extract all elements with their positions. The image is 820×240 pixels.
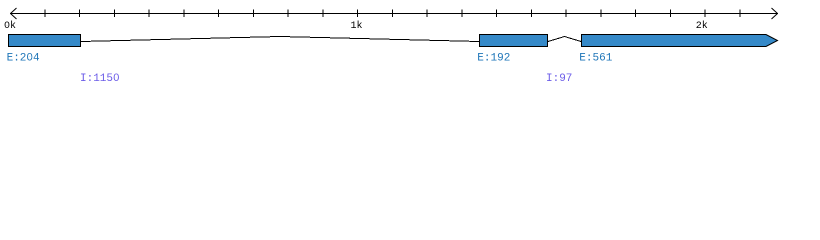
intron 1 line [81,37,479,42]
svg-text:2k: 2k [696,20,708,32]
right arrowhead [772,8,778,19]
svg-text:E:561: E:561 [579,53,612,65]
ruler ticks [45,10,740,18]
exon 1 box [9,35,81,47]
svg-text:I:97: I:97 [546,73,572,85]
ruler axis line [10,13,778,15]
exon 3 arrow box [582,35,778,47]
svg-text:0k: 0k [4,20,16,32]
svg-text:I:1150: I:1150 [80,73,120,85]
exon 2 box [480,35,548,47]
svg-text:E:204: E:204 [7,53,40,65]
svg-text:E:192: E:192 [477,53,510,65]
left arrowhead [11,8,17,19]
intron 2 line [548,37,581,42]
svg-text:1k: 1k [351,20,363,32]
